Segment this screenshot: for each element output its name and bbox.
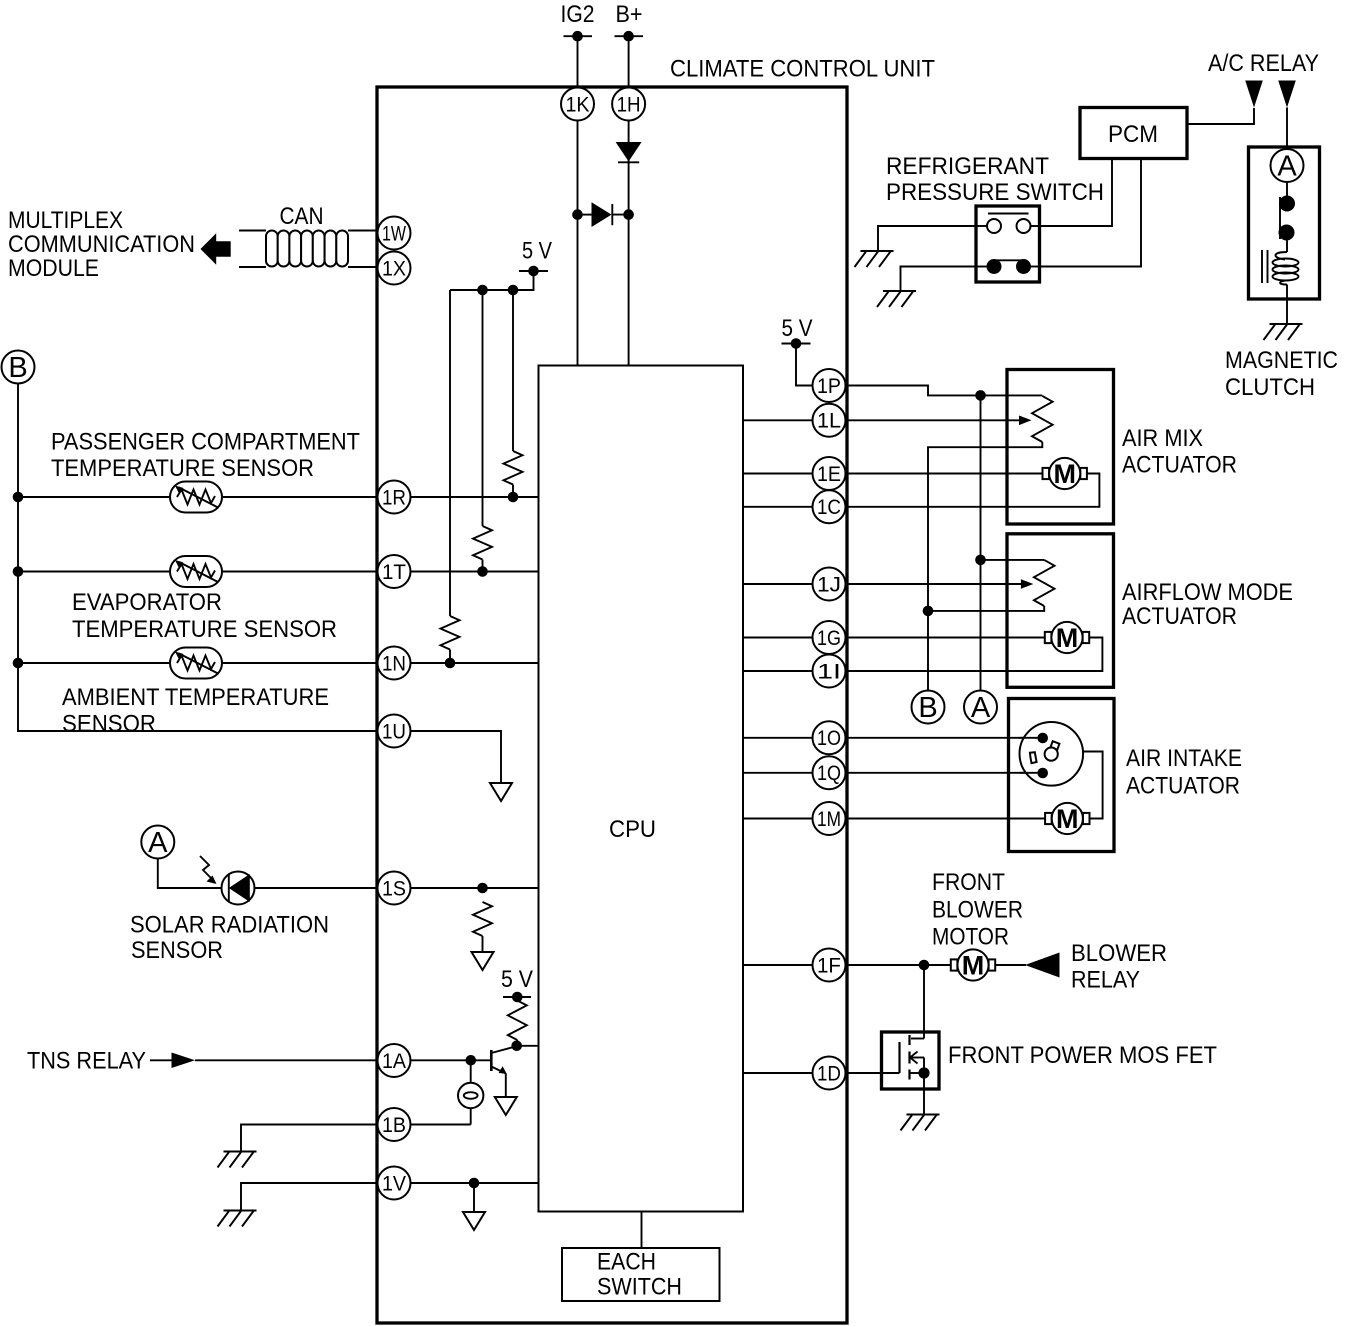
pin 1K [561, 88, 594, 121]
svg-text:1F: 1F [817, 954, 841, 977]
svg-text:SWITCH: SWITCH [597, 1274, 682, 1301]
potentiometer P1 (air mix) [928, 396, 1053, 611]
svg-text:5 V: 5 V [522, 238, 552, 265]
wire A bus (1P to airflow pot and node A) [975, 395, 986, 690]
label AMBIENT TEMPERATURE SENSOR [62, 684, 329, 738]
clutch contact dots [1279, 182, 1296, 252]
svg-text:AIRFLOW MODE: AIRFLOW MODE [1122, 579, 1293, 606]
terminal IG2 [561, 1, 595, 42]
arrow (1U return) [490, 783, 512, 801]
wire CPU to 1O [743, 737, 813, 739]
wire 1T line [18, 571, 378, 573]
label BLOWER RELAY [1071, 940, 1167, 994]
svg-text:TEMPERATURE SENSOR: TEMPERATURE SENSOR [51, 455, 314, 482]
wire CPU to 1F [743, 964, 813, 966]
svg-text:CLIMATE CONTROL UNIT: CLIMATE CONTROL UNIT [670, 56, 935, 83]
svg-text:1Q: 1Q [817, 762, 841, 785]
svg-text:AIR INTAKE: AIR INTAKE [1126, 745, 1242, 772]
wire CPU to 1M [743, 818, 813, 820]
svg-text:M: M [1053, 459, 1076, 489]
arrow (emitter to ground) [495, 1097, 517, 1115]
label MAGNETIC CLUTCH [1225, 347, 1338, 401]
magnetic clutch box [1249, 147, 1320, 299]
svg-text:TEMPERATURE SENSOR: TEMPERATURE SENSOR [72, 616, 337, 643]
label EVAPORATOR TEMPERATURE SENSOR [72, 589, 337, 643]
wire pressure switch upper-left to ground [878, 226, 976, 251]
wire 1C to motor [846, 474, 1100, 507]
svg-text:COMMUNICATION: COMMUNICATION [8, 231, 195, 258]
svg-text:1V: 1V [382, 1172, 406, 1195]
svg-text:CAN: CAN [280, 203, 324, 230]
svg-text:IG2: IG2 [561, 1, 595, 28]
pin 1P [813, 369, 846, 402]
svg-text:A: A [148, 827, 168, 859]
label PASSENGER COMPARTMENT TEMPERATURE SENSOR [51, 429, 360, 483]
node A (solar) [141, 826, 174, 860]
svg-text:EACH: EACH [597, 1249, 656, 1276]
climate control unit box [377, 56, 935, 1324]
wire 1N line [18, 662, 378, 664]
svg-text:1C: 1C [817, 496, 841, 519]
svg-text:1O: 1O [817, 727, 841, 750]
svg-text:1N: 1N [382, 652, 406, 675]
wire 1F to blower motor [846, 960, 951, 971]
5V supply (sensor pull-ups) [519, 238, 552, 277]
svg-text:MODULE: MODULE [8, 255, 99, 282]
pin 1T [378, 555, 411, 588]
pin 1D [813, 1057, 846, 1090]
svg-text:1K: 1K [566, 93, 590, 116]
AIR INTAKE ACTUATOR box [1009, 699, 1115, 852]
wire 1R line [18, 496, 378, 498]
svg-text:FRONT POWER MOS FET: FRONT POWER MOS FET [948, 1042, 1217, 1069]
lamp L1 (panel light) [411, 1060, 484, 1124]
svg-text:M: M [1056, 623, 1079, 653]
wire 1O to intake switch [846, 737, 1041, 739]
wire 1T to CPU [411, 566, 539, 577]
svg-text:SOLAR RADIATION: SOLAR RADIATION [130, 912, 329, 939]
wire CAN bottom to 1X [239, 266, 266, 268]
label AIRFLOW MODE ACTUATOR [1122, 579, 1293, 630]
terminal B+ [615, 1, 644, 42]
wire 1N to CPU [411, 658, 539, 669]
svg-text:1J: 1J [817, 573, 841, 596]
svg-text:1I: 1I [817, 660, 841, 683]
motor M2 (airflow mode) [1045, 622, 1089, 653]
pin 1R [378, 481, 411, 514]
arrow (1S return) [472, 952, 494, 970]
passenger compartment temperature sensor (thermistor) [170, 482, 222, 513]
wire photodiode to 1S [255, 887, 378, 889]
svg-text:1H: 1H [617, 93, 641, 116]
svg-text:CLUTCH: CLUTCH [1225, 374, 1315, 401]
svg-text:BLOWER: BLOWER [1071, 940, 1167, 967]
wire 1L wiper arrow [846, 416, 1032, 426]
svg-text:1P: 1P [817, 375, 841, 398]
wire CPU to 1G [743, 637, 813, 639]
pin 1B [378, 1108, 411, 1141]
pin 1H [612, 88, 645, 121]
wire 1B to ground [241, 1125, 378, 1152]
wire 5V rail [450, 271, 534, 295]
solar radiation sensor photodiode [200, 856, 255, 905]
wire B bus down to 1U line [13, 384, 378, 732]
svg-text:B+: B+ [616, 1, 643, 28]
svg-text:1D: 1D [817, 1062, 841, 1085]
node B (actuator common) [912, 691, 945, 725]
resistor R4 (1S pulldown) [473, 902, 492, 952]
arrow from A/C relay (to clutch) [1278, 81, 1296, 108]
wire CAN top to 1W [239, 230, 266, 232]
pin 1J [813, 568, 846, 601]
svg-text:1X: 1X [382, 257, 406, 280]
svg-text:PASSENGER COMPARTMENT: PASSENGER COMPARTMENT [51, 429, 360, 456]
potentiometer P2 (airflow mode) [928, 560, 1055, 611]
svg-text:M: M [962, 950, 985, 980]
5V supply (1P) [782, 315, 813, 349]
pin 1E [813, 457, 846, 490]
motor M3 (air intake) [1045, 803, 1089, 834]
pin 1O [813, 721, 846, 754]
node B (top left) [2, 351, 35, 385]
svg-text:ACTUATOR: ACTUATOR [1126, 773, 1240, 800]
ground (pressure switch lower) [877, 291, 916, 307]
wire 1V to ground [241, 1183, 378, 1211]
refrigerant pressure switch box [976, 206, 1040, 282]
svg-text:A: A [1277, 151, 1297, 183]
wire 1G to motor [846, 637, 1045, 639]
label AIR MIX ACTUATOR [1122, 425, 1237, 479]
wire CPU to 1I [743, 670, 813, 672]
svg-text:RELAY: RELAY [1071, 967, 1140, 994]
AIR MIX ACTUATOR box [1007, 370, 1114, 525]
wire CPU to 1L [743, 419, 813, 421]
wire 1E to motor [846, 473, 1043, 475]
pin 1X [378, 252, 411, 285]
wire 1I to motor [846, 638, 1103, 672]
svg-text:BLOWER: BLOWER [932, 897, 1023, 924]
wire pressure switch upper to PCM [1040, 159, 1113, 227]
ground (magnetic clutch) [1264, 324, 1303, 340]
wire CPU to 1C [743, 506, 813, 508]
transistor Q1 [491, 1046, 516, 1097]
wire 5V to 1P [796, 344, 813, 386]
pin 1U [378, 715, 411, 748]
wire 1D to MOSFET gate [846, 1072, 900, 1074]
svg-text:5 V: 5 V [501, 966, 533, 993]
ambient temperature sensor (thermistor) [170, 648, 222, 679]
wire MOSFET source to ground [923, 1073, 925, 1115]
EACH SWITCH box [562, 1248, 720, 1301]
svg-text:EVAPORATOR: EVAPORATOR [72, 589, 222, 616]
wire 1U to arrow [411, 731, 502, 783]
label FRONT BLOWER MOTOR [932, 869, 1023, 951]
wire CPU to 1E [743, 473, 813, 475]
evaporator temperature sensor (thermistor) [170, 556, 222, 587]
svg-text:AMBIENT TEMPERATURE: AMBIENT TEMPERATURE [62, 684, 329, 711]
wire 1J wiper arrow [846, 579, 1034, 589]
motor M1 (air mix) [1043, 458, 1087, 489]
resistor R2 (5V to 1T) [473, 290, 492, 572]
svg-text:ACTUATOR: ACTUATOR [1122, 603, 1237, 630]
svg-text:1A: 1A [382, 1050, 406, 1073]
label AIR INTAKE ACTUATOR [1126, 745, 1242, 800]
svg-text:AIR MIX: AIR MIX [1122, 425, 1203, 452]
svg-text:SENSOR: SENSOR [131, 937, 223, 964]
FRONT POWER MOS FET box [882, 1032, 940, 1089]
svg-text:5 V: 5 V [782, 315, 813, 342]
svg-text:1M: 1M [817, 808, 841, 831]
svg-text:1L: 1L [817, 410, 841, 433]
pin 1Q [813, 756, 846, 789]
svg-text:1R: 1R [382, 486, 406, 509]
arrow to A/C relay (from PCM) [1245, 81, 1263, 108]
svg-text:SENSOR: SENSOR [62, 711, 156, 738]
diode D1 on B+ line [616, 142, 642, 162]
pin 1V [378, 1167, 411, 1200]
CPU box U1 [539, 366, 744, 1212]
svg-text:MULTIPLEX: MULTIPLEX [8, 207, 123, 234]
pin 1F [813, 949, 846, 982]
resistor R3 (5V to 1N) [441, 290, 460, 663]
diode D2 between IG2 and B+ lines [572, 202, 634, 227]
label MULTIPLEX COMMUNICATION MODULE [8, 207, 195, 282]
svg-text:CPU: CPU [609, 816, 656, 843]
pin 1I [813, 655, 846, 688]
AIRFLOW MODE ACTUATOR box [1007, 534, 1114, 688]
svg-text:M: M [1056, 804, 1079, 834]
svg-text:ACTUATOR: ACTUATOR [1122, 452, 1237, 479]
wire pressure switch lower to PCM [1040, 159, 1142, 267]
wire 1A to transistor base [411, 1055, 492, 1066]
wire 1S to CPU [411, 883, 539, 894]
wire CPU to 1Q [743, 772, 813, 774]
wire collector node to CPU [511, 1041, 538, 1052]
wire B+ to CPU [628, 36, 630, 365]
wire B bus (pot bottoms to node B) [923, 606, 934, 691]
connector A (clutch) [1271, 149, 1304, 183]
air intake position switch symbol [1020, 722, 1084, 786]
wire CPU to 1J [743, 583, 813, 585]
svg-text:REFRIGERANT: REFRIGERANT [886, 153, 1049, 180]
wire IG2 to CPU [577, 36, 579, 365]
5V supply (transistor) [501, 966, 533, 1002]
svg-text:A: A [971, 692, 991, 724]
wire 1M to motor [846, 818, 1046, 820]
motor M4 (front blower) [951, 949, 995, 980]
pin 1L [813, 404, 846, 437]
wire PCM to A/C relay [1187, 108, 1254, 124]
svg-text:1U: 1U [382, 720, 406, 743]
svg-text:1G: 1G [817, 627, 841, 650]
ground (MOSFET) [901, 1115, 940, 1131]
svg-text:MAGNETIC: MAGNETIC [1225, 347, 1338, 374]
arrow TNS input [150, 1053, 378, 1069]
node A (actuator common) [964, 691, 997, 725]
svg-text:1B: 1B [382, 1114, 406, 1137]
svg-text:1W: 1W [382, 222, 406, 245]
wire A to photodiode [158, 859, 222, 889]
pin 1S [378, 872, 411, 905]
svg-text:B: B [8, 352, 27, 384]
pin 1W [378, 217, 411, 250]
svg-text:1T: 1T [382, 561, 406, 584]
wire intake switch to motor [1083, 752, 1102, 819]
ground (1B) [218, 1152, 257, 1168]
svg-text:B: B [918, 692, 937, 724]
label REFRIGERANT PRESSURE SWITCH [886, 153, 1104, 206]
PCM box [1080, 108, 1187, 159]
pin 1M [813, 802, 846, 835]
wire 1P to air mix pot [846, 386, 1043, 401]
pin 1A [378, 1044, 411, 1077]
svg-text:1E: 1E [817, 463, 841, 486]
resistor R1 (5V to 1R) [504, 290, 523, 497]
pin 1C [813, 490, 846, 523]
svg-text:PCM: PCM [1108, 121, 1158, 148]
wire 1F node to MOSFET drain [923, 965, 925, 1039]
label SOLAR RADIATION SENSOR [130, 912, 329, 965]
wire 1R to CPU [411, 492, 539, 503]
CAN coil L2 [266, 231, 348, 267]
ground (1V) [218, 1211, 257, 1227]
pin 1G [813, 621, 846, 654]
svg-text:PRESSURE SWITCH: PRESSURE SWITCH [886, 179, 1104, 206]
svg-text:MOTOR: MOTOR [932, 924, 1009, 951]
wire A/C relay to magnetic clutch [1286, 108, 1288, 150]
clutch coil L3 [1262, 250, 1299, 324]
arrow from blower relay [995, 953, 1059, 978]
wire 1V to CPU [411, 1178, 539, 1212]
pin 1N [378, 647, 411, 680]
resistor R5 (5V to collector) [508, 1001, 527, 1046]
wire CPU to 1D [743, 1072, 813, 1074]
svg-text:FRONT: FRONT [932, 869, 1005, 896]
wire CPU to EACH SWITCH [641, 1212, 643, 1249]
ground (pressure switch upper) [855, 251, 894, 267]
svg-text:TNS RELAY: TNS RELAY [27, 1048, 146, 1075]
arrow (1V return) [463, 1212, 485, 1230]
wire 1Q to intake switch [846, 772, 1041, 774]
svg-text:A/C RELAY: A/C RELAY [1208, 50, 1319, 77]
wire pressure switch lower-left to ground [901, 267, 977, 292]
svg-text:1S: 1S [382, 877, 406, 900]
MOSFET Q2 [900, 1035, 930, 1080]
arrow to multiplex module [201, 233, 231, 264]
